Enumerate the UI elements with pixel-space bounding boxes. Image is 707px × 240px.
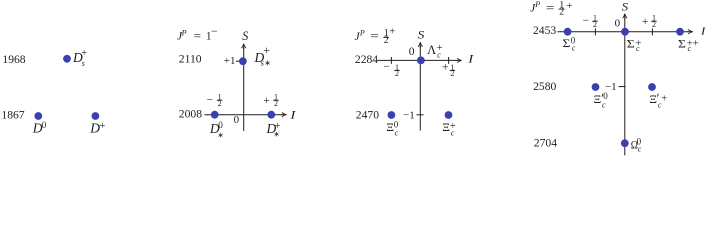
particle dot Xi_c+ (445, 111, 453, 119)
svg-text:2: 2 (450, 69, 454, 78)
svg-text:2453: 2453 (533, 24, 556, 37)
svg-text:∗: ∗ (264, 58, 271, 67)
svg-text:0: 0 (42, 120, 47, 130)
svg-text:c: c (572, 44, 576, 53)
svg-text:2: 2 (593, 20, 597, 29)
svg-text:+1: +1 (224, 55, 236, 67)
svg-text:2580: 2580 (533, 80, 556, 93)
I axis arrowhead (688, 30, 692, 34)
svg-text:c: c (638, 145, 642, 154)
svg-text:Σ: Σ (627, 38, 635, 50)
svg-text:2: 2 (395, 69, 399, 78)
svg-text:c: c (437, 51, 441, 60)
svg-text:1867: 1867 (1, 109, 24, 122)
svg-text:2284: 2284 (355, 53, 378, 66)
svg-text:2470: 2470 (356, 109, 379, 122)
tick at S=+1 (236, 60, 243, 62)
svg-text:+: + (442, 62, 449, 74)
I axis arrowhead (457, 58, 461, 62)
svg-text:2: 2 (218, 99, 222, 108)
svg-text:1968: 1968 (2, 53, 25, 66)
svg-text:=: = (546, 2, 555, 14)
S axis arrowhead (418, 42, 422, 46)
particle dot Sigma_c+ (621, 28, 629, 36)
svg-text:I: I (289, 109, 297, 121)
svg-text:P: P (181, 28, 187, 37)
particle dot D0 (34, 112, 42, 120)
S axis vertical line (243, 48, 245, 132)
tick at I3=-1/2 (390, 57, 392, 64)
svg-text:c: c (636, 44, 640, 53)
svg-text:−1: −1 (403, 109, 415, 121)
svg-text:−: − (207, 95, 214, 107)
svg-text:−: − (383, 61, 390, 73)
particle dot Sigma_c++ (676, 28, 684, 36)
I axis arrowhead (282, 113, 286, 117)
svg-text:S: S (242, 29, 249, 43)
svg-text:Σ: Σ (562, 38, 570, 50)
svg-text:2110: 2110 (179, 53, 202, 66)
svg-text:Λ: Λ (427, 43, 436, 57)
svg-text:+: + (566, 0, 572, 12)
particle dot Lambda_c+ (417, 57, 425, 65)
particle dot Omega_c0 (621, 139, 629, 147)
svg-text:−: − (211, 24, 218, 38)
svg-text:2: 2 (274, 99, 278, 108)
svg-text:c: c (688, 44, 692, 53)
svg-text:0: 0 (603, 91, 608, 101)
svg-text:Ξ: Ξ (594, 92, 602, 106)
svg-text:2008: 2008 (179, 108, 202, 121)
tick at I3=-1/2 (594, 28, 596, 35)
svg-text:2704: 2704 (534, 137, 557, 150)
particle dot Xi'_c0 (592, 83, 600, 91)
tick at I3=+1/2 (448, 57, 450, 64)
svg-text:+: + (389, 26, 395, 37)
particle dot D_s+ (63, 55, 71, 63)
svg-text:Σ: Σ (678, 38, 686, 50)
svg-text:2: 2 (384, 35, 389, 46)
svg-text:2: 2 (652, 20, 656, 29)
svg-text:+: + (81, 48, 87, 59)
S axis arrowhead (242, 44, 246, 48)
svg-text:+: + (263, 95, 270, 107)
tick at I3=+1/2 (651, 28, 653, 35)
particle dot D*_s+ (239, 57, 247, 65)
tick at S=-1 (417, 114, 424, 116)
svg-text:P: P (359, 28, 365, 37)
I axis horizontal line (205, 114, 283, 116)
svg-text:∗: ∗ (273, 129, 279, 138)
S axis vertical line (624, 17, 626, 155)
particle dot Xi'_c+ (648, 83, 656, 91)
particle dot D+ (92, 112, 100, 120)
particle dot Xi_c0 (388, 111, 396, 119)
svg-text:S: S (418, 28, 425, 42)
svg-text:0: 0 (409, 46, 415, 58)
svg-text:c: c (451, 128, 455, 137)
S axis arrowhead (623, 14, 627, 18)
particle dot D*+ (267, 111, 275, 119)
svg-text:P: P (534, 0, 540, 9)
svg-text:=: = (194, 30, 201, 42)
svg-text:+: + (642, 16, 649, 28)
I axis horizontal line (558, 31, 689, 33)
svg-text:I: I (700, 25, 707, 37)
particle dot D*0 (211, 111, 219, 119)
svg-text:S: S (622, 0, 628, 14)
svg-text:−: − (583, 15, 590, 27)
tick at S=-1 (619, 86, 626, 88)
I axis horizontal line (378, 59, 458, 61)
svg-text:I: I (467, 53, 475, 65)
svg-text:c: c (602, 100, 606, 109)
svg-text:∗: ∗ (218, 130, 224, 139)
svg-text:=: = (370, 31, 379, 43)
svg-text:0: 0 (615, 17, 621, 29)
svg-text:0: 0 (218, 120, 223, 130)
S axis vertical line (419, 46, 421, 131)
svg-text:+: + (99, 120, 105, 132)
svg-text:Ξ: Ξ (649, 92, 657, 106)
svg-text:0: 0 (234, 114, 240, 126)
svg-text:+: + (263, 43, 270, 57)
particle dot Sigma_c0 (564, 28, 572, 36)
svg-text:s: s (82, 59, 85, 68)
svg-text:+: + (661, 94, 667, 105)
svg-text:2: 2 (559, 7, 564, 18)
svg-text:c: c (395, 128, 399, 137)
svg-text:c: c (658, 101, 662, 110)
